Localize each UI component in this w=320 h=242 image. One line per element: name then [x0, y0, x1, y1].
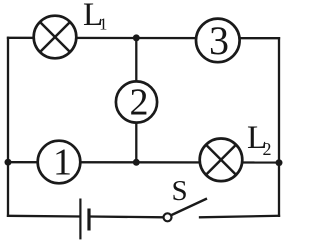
svg-text:2: 2 — [130, 82, 149, 124]
svg-text:1: 1 — [99, 15, 108, 34]
svg-text:2: 2 — [263, 139, 272, 159]
svg-text:S: S — [172, 175, 188, 207]
svg-text:1: 1 — [53, 141, 72, 183]
svg-text:3: 3 — [209, 18, 229, 63]
